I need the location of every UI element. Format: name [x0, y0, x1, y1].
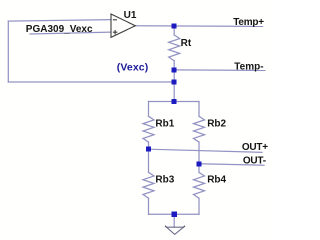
svg-text:(Vexc): (Vexc): [117, 61, 149, 73]
svg-text:U1: U1: [124, 10, 137, 21]
wire bridge top rail: [149, 101, 200, 103]
wire op-amp output to Temp+: [135, 25, 262, 28]
node bridge top junction: [172, 99, 177, 104]
wire Rt top lead: [173, 26, 175, 35]
resistor Rb2: [194, 116, 205, 142]
wire Rt bottom lead: [173, 61, 175, 70]
node OUT- junction: [197, 161, 202, 166]
wire bridge bottom rail: [149, 213, 200, 215]
node OUT+ junction: [146, 147, 151, 152]
svg-text:Rb2: Rb2: [207, 119, 226, 130]
svg-text:OUT-: OUT-: [243, 155, 266, 166]
wire feedback bottom segment from left vertical to Vexc node: [8, 81, 174, 83]
wire ground stub: [173, 214, 175, 227]
wire Vexc node to bridge top: [173, 82, 175, 102]
node bridge bottom junction: [172, 212, 177, 217]
svg-text:Rb1: Rb1: [155, 119, 174, 130]
wire feedback left vertical: [7, 21, 9, 82]
wire OUT+: [149, 149, 263, 152]
resistor Rb1: [143, 116, 154, 142]
svg-text:Rt: Rt: [181, 38, 192, 49]
resistor Rt: [169, 35, 180, 61]
ground: [165, 226, 184, 234]
wire OUT-: [199, 164, 264, 165]
resistor Rb3: [143, 172, 154, 198]
svg-text:Temp-: Temp-: [234, 62, 263, 73]
wire Rb1 top lead: [148, 102, 150, 117]
wire Rb1 bottom lead: [148, 142, 150, 149]
wire Temp- node to Vexc feedback node: [173, 70, 175, 82]
node Temp- junction: [172, 67, 177, 72]
wire Rb2 bottom lead to OUT- node: [198, 142, 200, 164]
wire Rb3 bottom lead: [148, 198, 150, 214]
svg-text:OUT+: OUT+: [242, 142, 268, 153]
wire Rb3 top lead: [148, 149, 150, 172]
node Vexc feedback junction: [172, 80, 177, 85]
wire net label underline into op-amp noninverting input: [30, 32, 111, 34]
node output junction: [172, 24, 177, 29]
resistor Rb4: [194, 172, 205, 198]
svg-text:Temp+: Temp+: [233, 17, 264, 28]
svg-text:PGA309_Vexc: PGA309_Vexc: [26, 24, 93, 35]
wire feedback top segment to op-amp inverting input: [8, 20, 111, 22]
op-amp U1: [111, 14, 135, 37]
svg-text:Rb4: Rb4: [207, 175, 226, 186]
wire Temp-: [174, 69, 265, 72]
svg-text:Rb3: Rb3: [155, 175, 174, 186]
wire Rb4 top lead: [198, 164, 200, 173]
wire Rb4 bottom lead: [198, 198, 200, 214]
wire Rb2 top lead: [198, 102, 200, 117]
